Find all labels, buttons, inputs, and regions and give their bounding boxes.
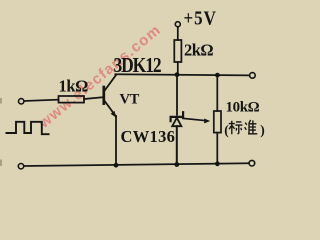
junction dot: emitter / bottom rail (114, 163, 119, 168)
svg-text:+5V: +5V (184, 7, 217, 28)
label hanzi biao (standard) (229, 121, 243, 135)
paper background (0, 0, 276, 176)
wire: bottom rail (24, 163, 249, 166)
svg-text:CW136: CW136 (121, 127, 176, 146)
potentiometer RP 10k box (214, 111, 221, 133)
scan artifact ticks left edge (0, 98, 2, 104)
wire: emitter vertical down (115, 116, 117, 165)
wire: R2 to rail junction (177, 62, 179, 75)
svg-text:): ) (260, 123, 265, 138)
wire: zener anode to bottom rail (176, 126, 178, 165)
square wave input symbol (6, 122, 50, 134)
resistor R1 1k box (59, 96, 85, 103)
svg-text:1kΩ: 1kΩ (59, 77, 89, 96)
junction dot: zener / bottom rail (174, 162, 179, 167)
terminal: output top right (250, 73, 256, 79)
svg-text:3DK12: 3DK12 (114, 54, 161, 77)
wire: collector horizontal rail (115, 74, 250, 75)
wire: junction down to zener VD cathode (176, 75, 178, 115)
transistor VT base bar (102, 87, 105, 104)
pot wiper arrowhead (204, 119, 210, 124)
terminal: +5V (175, 22, 180, 27)
resistor R2 2k box (174, 40, 181, 62)
junction dot: pot bottom / bottom rail (215, 161, 220, 166)
transistor VT emitter stroke (104, 101, 116, 117)
watermark www.elecfans.com (35, 21, 165, 132)
svg-text:(: ( (224, 123, 229, 138)
junction dot: pot top / rail (215, 73, 220, 78)
label hanzi zhun (accurate) (245, 120, 258, 134)
svg-text:2kΩ: 2kΩ (184, 40, 213, 59)
svg-text:VT: VT (120, 92, 140, 108)
wire: input terminal to R1 (24, 100, 59, 101)
wire: R1 to base (84, 97, 103, 99)
transistor VT emitter arrowhead (111, 111, 117, 118)
zener CW136 triangle (172, 118, 181, 126)
wire: +5V down to R2 (177, 27, 179, 40)
wire: zener node to pot wiper (183, 118, 206, 120)
svg-text:10kΩ: 10kΩ (226, 99, 260, 115)
wire: pot bottom to rail (216, 133, 218, 164)
terminal: input (19, 99, 24, 104)
zener CW136 cathode bar (171, 112, 184, 121)
terminal: bottom right (249, 160, 255, 166)
junction dot: R2 bottom / rail (175, 72, 180, 77)
terminal: bottom left (18, 164, 23, 169)
transistor VT collector stroke (104, 75, 116, 91)
wire: pot top to rail (216, 75, 218, 111)
